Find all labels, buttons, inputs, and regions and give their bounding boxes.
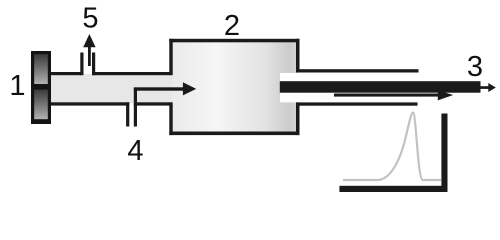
column 3 exit arrow shaft [479,86,489,89]
tube fill [49,74,173,103]
chamber 2 border right upper [296,39,300,73]
carrier flow arrow shaft [334,94,438,97]
flow arrow head [183,82,196,95]
chamber 2 border left upper [169,39,172,75]
detector plot vertical axis [441,114,447,193]
chromatogram peak curve [343,113,441,181]
flow arrow shaft from inlet 4 [134,87,184,90]
outlet port top wall [296,69,419,72]
chamber 2 border right lower [296,102,300,135]
svg-text:4: 4 [127,135,143,167]
svg-text:1: 1 [9,70,25,102]
chamber 2 fill [172,41,298,134]
vent arrow 5 shaft [88,45,91,66]
end block 1 body [31,51,51,124]
chamber 2 border bottom [169,132,299,136]
detector plot horizontal axis [339,186,447,192]
svg-text:5: 5 [82,3,98,35]
end block 1 lower cell [34,90,48,120]
end block 1 upper cell [34,54,48,84]
inlet 4 right wall / flow riser [134,88,137,127]
chamber 2 border left lower [169,102,172,135]
tube top wall left segment [49,72,82,75]
tube bottom wall left segment [49,102,129,105]
tube bottom wall right segment [134,102,170,105]
svg-text:3: 3 [467,51,483,83]
tube top wall right segment [92,72,170,75]
chamber 2 border top [169,39,299,43]
port 5 stub right wall [92,53,95,76]
svg-text:2: 2 [224,10,240,42]
carrier flow arrow head [438,90,453,100]
outlet port white notch [280,73,418,102]
vent arrow 5 head [83,34,95,47]
inlet 4 left wall [126,102,129,126]
outlet port bottom wall [296,102,418,105]
column 3 exit arrow head [488,83,496,92]
port 5 stub left wall [80,53,83,76]
column 3 thick bar [280,81,481,93]
